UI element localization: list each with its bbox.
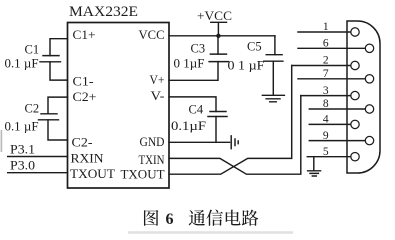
- svg-text:MAX232E: MAX232E: [69, 4, 138, 20]
- caption char 路: [242, 210, 259, 226]
- capacitor C2: [39, 114, 59, 120]
- scan streak bottom: [128, 231, 293, 234]
- caption char 图: [144, 210, 158, 226]
- wire DB9 pin 2: [292, 65, 351, 67]
- wire VCC rail down to capacitor C5: [274, 36, 276, 55]
- ground (below C5): [262, 95, 284, 102]
- DB9 pin 6 contact: [365, 44, 373, 52]
- wire DB9 pin 4: [309, 123, 351, 125]
- svg-text:1: 1: [323, 21, 329, 33]
- connector J1 DB9 shell: [347, 21, 380, 173]
- DB9 pin 7 contact: [365, 75, 373, 83]
- svg-text:TXOUT: TXOUT: [121, 167, 165, 182]
- wire DB9 pin 1: [298, 31, 351, 33]
- DB9 pin 5 contact: [351, 153, 359, 161]
- wire P3.0 to TXOUT: [8, 172, 68, 174]
- power +VCC bar and stem: [211, 22, 227, 36]
- wire DB9 pin 5 to ground: [313, 157, 315, 171]
- wire capacitor C3 to V+ pin: [169, 62, 218, 81]
- svg-text:0.1 µF: 0.1 µF: [5, 120, 39, 134]
- wire V- pin to capacitor C4: [169, 97, 216, 112]
- svg-text:3: 3: [323, 85, 329, 97]
- DB9 pin 1 contact: [351, 28, 359, 36]
- wire capacitor C4 to GND wire: [215, 117, 217, 143]
- svg-text:TXOUT: TXOUT: [70, 166, 115, 181]
- svg-text:V-: V-: [151, 88, 165, 103]
- svg-text:7: 7: [323, 68, 329, 80]
- svg-text:C1-: C1-: [73, 74, 94, 89]
- wire GND pin: [169, 141, 230, 143]
- wire capacitor C1 to C1- pin: [50, 62, 68, 80]
- wire VCC rail: [169, 35, 275, 37]
- svg-text:9: 9: [323, 130, 329, 142]
- node junction dot on VCC rail: [216, 34, 220, 38]
- svg-text:6: 6: [323, 38, 329, 50]
- capacitor C4: [208, 112, 227, 117]
- DB9 pin 9 contact: [365, 136, 373, 144]
- svg-text:0.1µF: 0.1µF: [171, 119, 206, 133]
- wire P3.1 to RXIN: [8, 156, 68, 158]
- svg-text:C3: C3: [191, 42, 206, 56]
- wire C2+ pin to capacitor C2: [48, 97, 68, 114]
- svg-text:GND: GND: [140, 134, 165, 149]
- svg-text:RXIN: RXIN: [71, 151, 105, 166]
- capacitor C5: [264, 55, 283, 62]
- op-amp U1 MAX232E IC body: [68, 23, 170, 189]
- capacitor C1: [40, 56, 61, 62]
- svg-text:VCC: VCC: [139, 27, 165, 42]
- wire DB9 pin 8: [309, 108, 365, 110]
- wire capacitor C5 to ground: [272, 61, 274, 94]
- wire DB9 pin 9: [309, 140, 365, 142]
- svg-text:8: 8: [323, 98, 329, 110]
- svg-text:P3.0: P3.0: [10, 158, 35, 173]
- svg-text:C2: C2: [25, 102, 40, 116]
- ground (DB9 pin 5): [308, 171, 321, 176]
- DB9 pin 8 contact: [365, 105, 373, 113]
- svg-text:2: 2: [323, 55, 329, 67]
- capacitor C3: [209, 54, 228, 62]
- wire DB9 pin 3: [301, 95, 351, 97]
- wire DB9 pin 6: [298, 47, 365, 49]
- svg-text:C5: C5: [247, 40, 262, 54]
- svg-text:+VCC: +VCC: [197, 9, 232, 23]
- svg-text:6: 6: [166, 211, 174, 228]
- svg-text:0.1 µF: 0.1 µF: [5, 57, 39, 71]
- wire TXOUT to crossover to DB9 pin 2: [169, 66, 292, 175]
- wire VCC rail down to capacitor C3: [217, 36, 219, 54]
- wire DB9 pin 5: [307, 156, 351, 158]
- svg-text:0 1 µF: 0 1 µF: [228, 59, 265, 73]
- svg-text:C1+: C1+: [73, 27, 96, 42]
- svg-text:P3.1: P3.1: [10, 142, 35, 157]
- svg-text:V+: V+: [150, 72, 165, 87]
- wire DB9 pin 7: [298, 78, 365, 80]
- caption char 通: [189, 210, 205, 226]
- svg-text:4: 4: [323, 114, 329, 126]
- svg-text:C4: C4: [189, 102, 204, 116]
- svg-text:C1: C1: [25, 43, 40, 57]
- caption char 信: [206, 210, 223, 226]
- DB9 pin 3 contact: [351, 91, 359, 99]
- scan mark left edge: [1, 130, 3, 152]
- DB9 pin 4 contact: [351, 120, 359, 128]
- wire C1+ pin to capacitor C1: [50, 39, 68, 56]
- DB9 pin 2 contact: [351, 61, 359, 69]
- wire capacitor C2 to C2- pin: [48, 120, 68, 140]
- caption char 电: [226, 210, 241, 226]
- ground (GND pin, sideways): [231, 136, 238, 149]
- wire TXIN to crossover to DB9 pin 3: [169, 96, 301, 175]
- svg-text:0 1µF: 0 1µF: [174, 57, 205, 71]
- svg-text:C2-: C2-: [72, 135, 93, 150]
- svg-text:TXIN: TXIN: [139, 152, 166, 167]
- svg-text:C2+: C2+: [73, 89, 97, 104]
- svg-text:5: 5: [323, 146, 329, 158]
